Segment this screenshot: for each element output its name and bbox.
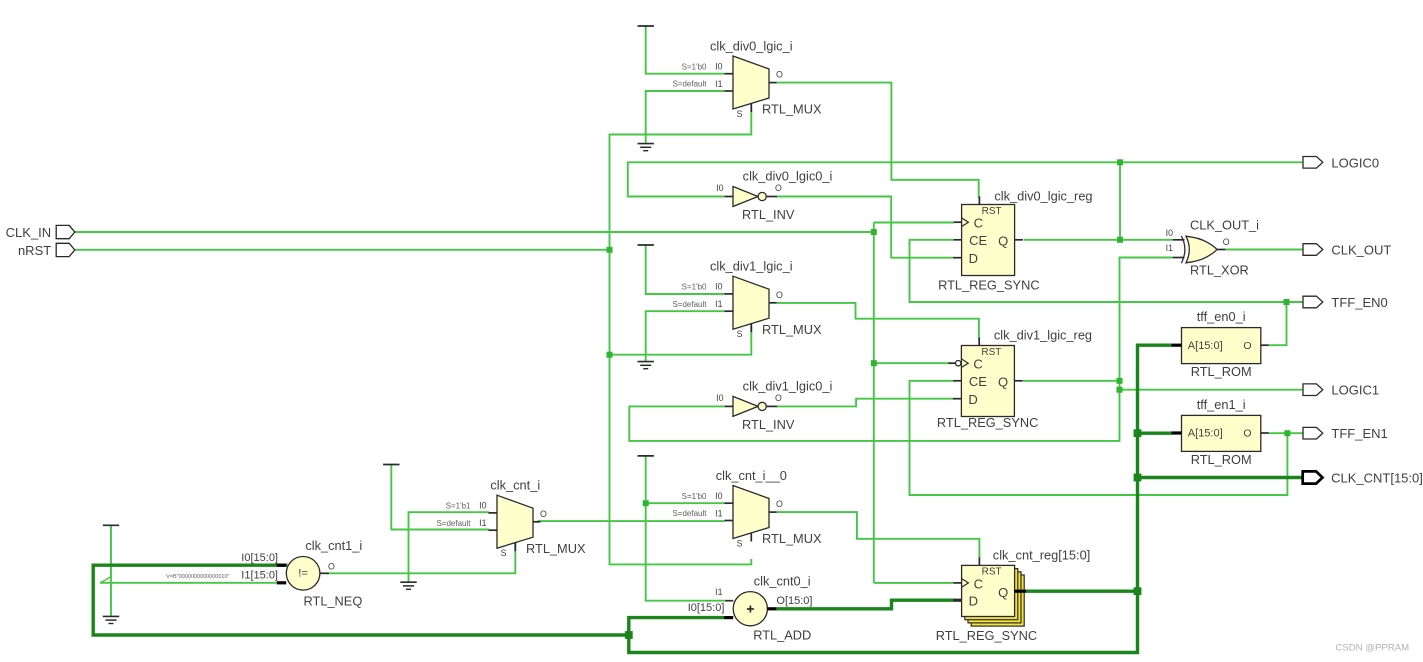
svg-text:!=: !=: [298, 568, 308, 580]
svg-text:tff_en0_i: tff_en0_i: [1197, 309, 1246, 324]
svg-text:S: S: [737, 539, 743, 549]
svg-text:I1: I1: [715, 79, 722, 89]
svg-text:RTL_MUX: RTL_MUX: [526, 541, 586, 556]
svg-text:O: O: [540, 509, 547, 519]
svg-text:D: D: [969, 251, 978, 266]
svg-text:A[15:0]: A[15:0]: [1188, 340, 1223, 352]
svg-text:S=1'b1: S=1'b1: [446, 502, 471, 511]
svg-text:clk_cnt_reg[15:0]: clk_cnt_reg[15:0]: [993, 547, 1090, 562]
svg-text:RTL_MUX: RTL_MUX: [762, 102, 822, 117]
svg-text:C: C: [974, 576, 983, 591]
svg-text:RTL_REG_SYNC: RTL_REG_SYNC: [938, 277, 1039, 292]
svg-text:O: O: [1243, 428, 1251, 440]
svg-text:RTL_INV: RTL_INV: [742, 417, 795, 432]
svg-text:I1: I1: [715, 508, 722, 518]
svg-text:O: O: [1243, 340, 1251, 352]
svg-text:S=default: S=default: [672, 80, 707, 89]
svg-text:Q: Q: [998, 233, 1008, 248]
svg-text:clk_div0_lgic_i: clk_div0_lgic_i: [710, 39, 793, 54]
svg-text:I0[15:0]: I0[15:0]: [241, 552, 278, 564]
svg-text:CLK_IN: CLK_IN: [6, 225, 52, 240]
svg-text:clk_cnt1_i: clk_cnt1_i: [305, 538, 362, 553]
svg-text:CLK_OUT_i: CLK_OUT_i: [1190, 218, 1259, 233]
svg-text:clk_cnt_i: clk_cnt_i: [490, 478, 540, 493]
svg-text:CSDN @PPRAM: CSDN @PPRAM: [1335, 643, 1409, 654]
svg-text:D: D: [968, 392, 977, 407]
svg-text:S=1'b0: S=1'b0: [682, 62, 707, 71]
svg-text:O: O: [1223, 237, 1230, 247]
svg-text:O: O: [775, 183, 782, 193]
svg-text:nRST: nRST: [18, 243, 51, 258]
svg-text:TFF_EN0: TFF_EN0: [1331, 295, 1387, 310]
svg-text:I0: I0: [716, 393, 723, 403]
svg-text:CLK_CNT[15:0]: CLK_CNT[15:0]: [1331, 471, 1423, 486]
svg-text:RTL_NEQ: RTL_NEQ: [304, 594, 363, 609]
svg-text:RST: RST: [981, 347, 1001, 358]
svg-text:I0[15:0]: I0[15:0]: [688, 602, 725, 614]
svg-text:I1: I1: [479, 518, 486, 528]
svg-text:RTL_ADD: RTL_ADD: [753, 628, 811, 643]
svg-text:A[15:0]: A[15:0]: [1188, 428, 1223, 440]
svg-text:tff_en1_i: tff_en1_i: [1197, 397, 1246, 412]
svg-text:C: C: [974, 216, 983, 231]
svg-text:O: O: [776, 70, 783, 80]
svg-text:RTL_INV: RTL_INV: [742, 207, 795, 222]
svg-text:I0: I0: [716, 183, 723, 193]
svg-text:RTL_ROM: RTL_ROM: [1191, 452, 1252, 467]
svg-text:RTL_REG_SYNC: RTL_REG_SYNC: [937, 415, 1038, 430]
svg-text:RST: RST: [982, 567, 1002, 578]
svg-text:I0: I0: [1166, 228, 1173, 238]
svg-text:clk_div0_lgic0_i: clk_div0_lgic0_i: [743, 169, 833, 184]
svg-text:RTL_MUX: RTL_MUX: [762, 531, 822, 546]
svg-text:TFF_EN1: TFF_EN1: [1331, 426, 1387, 441]
svg-text:clk_div1_lgic_i: clk_div1_lgic_i: [710, 259, 793, 274]
svg-text:I1[15:0]: I1[15:0]: [241, 569, 278, 581]
svg-text:S=default: S=default: [672, 300, 707, 309]
svg-text:O: O: [775, 393, 782, 403]
svg-text:LOGIC1: LOGIC1: [1331, 383, 1379, 398]
svg-text:S=default: S=default: [436, 519, 471, 528]
svg-text:CLK_OUT: CLK_OUT: [1331, 243, 1391, 258]
svg-text:LOGIC0: LOGIC0: [1331, 155, 1379, 170]
svg-text:I1: I1: [715, 299, 722, 309]
svg-text:I1: I1: [1166, 243, 1173, 253]
svg-text:CE: CE: [969, 374, 987, 389]
svg-text:O: O: [328, 561, 335, 571]
svg-text:I0: I0: [715, 62, 722, 72]
svg-text:C: C: [973, 357, 982, 372]
svg-text:RTL_ROM: RTL_ROM: [1191, 364, 1252, 379]
svg-text:S=default: S=default: [672, 509, 707, 518]
svg-text:I1: I1: [715, 587, 722, 597]
svg-text:RTL_MUX: RTL_MUX: [762, 322, 822, 337]
svg-text:S: S: [501, 548, 507, 558]
svg-text:S=1'b0: S=1'b0: [682, 283, 707, 292]
svg-text:S=1'b0: S=1'b0: [682, 492, 707, 501]
svg-text:I0: I0: [479, 501, 486, 511]
svg-text:D: D: [969, 594, 978, 609]
svg-text:O: O: [776, 499, 783, 509]
svg-text:I0: I0: [715, 282, 722, 292]
svg-text:Q: Q: [998, 585, 1008, 600]
svg-text:Q: Q: [998, 374, 1008, 389]
svg-text:clk_cnt0_i: clk_cnt0_i: [754, 573, 811, 588]
svg-text:clk_div1_lgic0_i: clk_div1_lgic0_i: [743, 379, 833, 394]
svg-text:RTL_XOR: RTL_XOR: [1190, 263, 1249, 278]
svg-text:clk_div1_lgic_reg: clk_div1_lgic_reg: [994, 328, 1092, 343]
svg-text:S: S: [737, 329, 743, 339]
svg-text:clk_cnt_i__0: clk_cnt_i__0: [716, 468, 787, 483]
svg-text:O[15:0]: O[15:0]: [776, 595, 812, 607]
svg-text:O: O: [776, 290, 783, 300]
svg-text:RTL_REG_SYNC: RTL_REG_SYNC: [936, 628, 1037, 643]
svg-text:clk_div0_lgic_reg: clk_div0_lgic_reg: [994, 189, 1092, 204]
svg-text:V=B"0000000000000010": V=B"0000000000000010": [166, 574, 229, 580]
svg-text:I0: I0: [715, 491, 722, 501]
svg-text:CE: CE: [969, 233, 987, 248]
svg-text:S: S: [737, 109, 743, 119]
svg-text:RST: RST: [982, 206, 1002, 217]
